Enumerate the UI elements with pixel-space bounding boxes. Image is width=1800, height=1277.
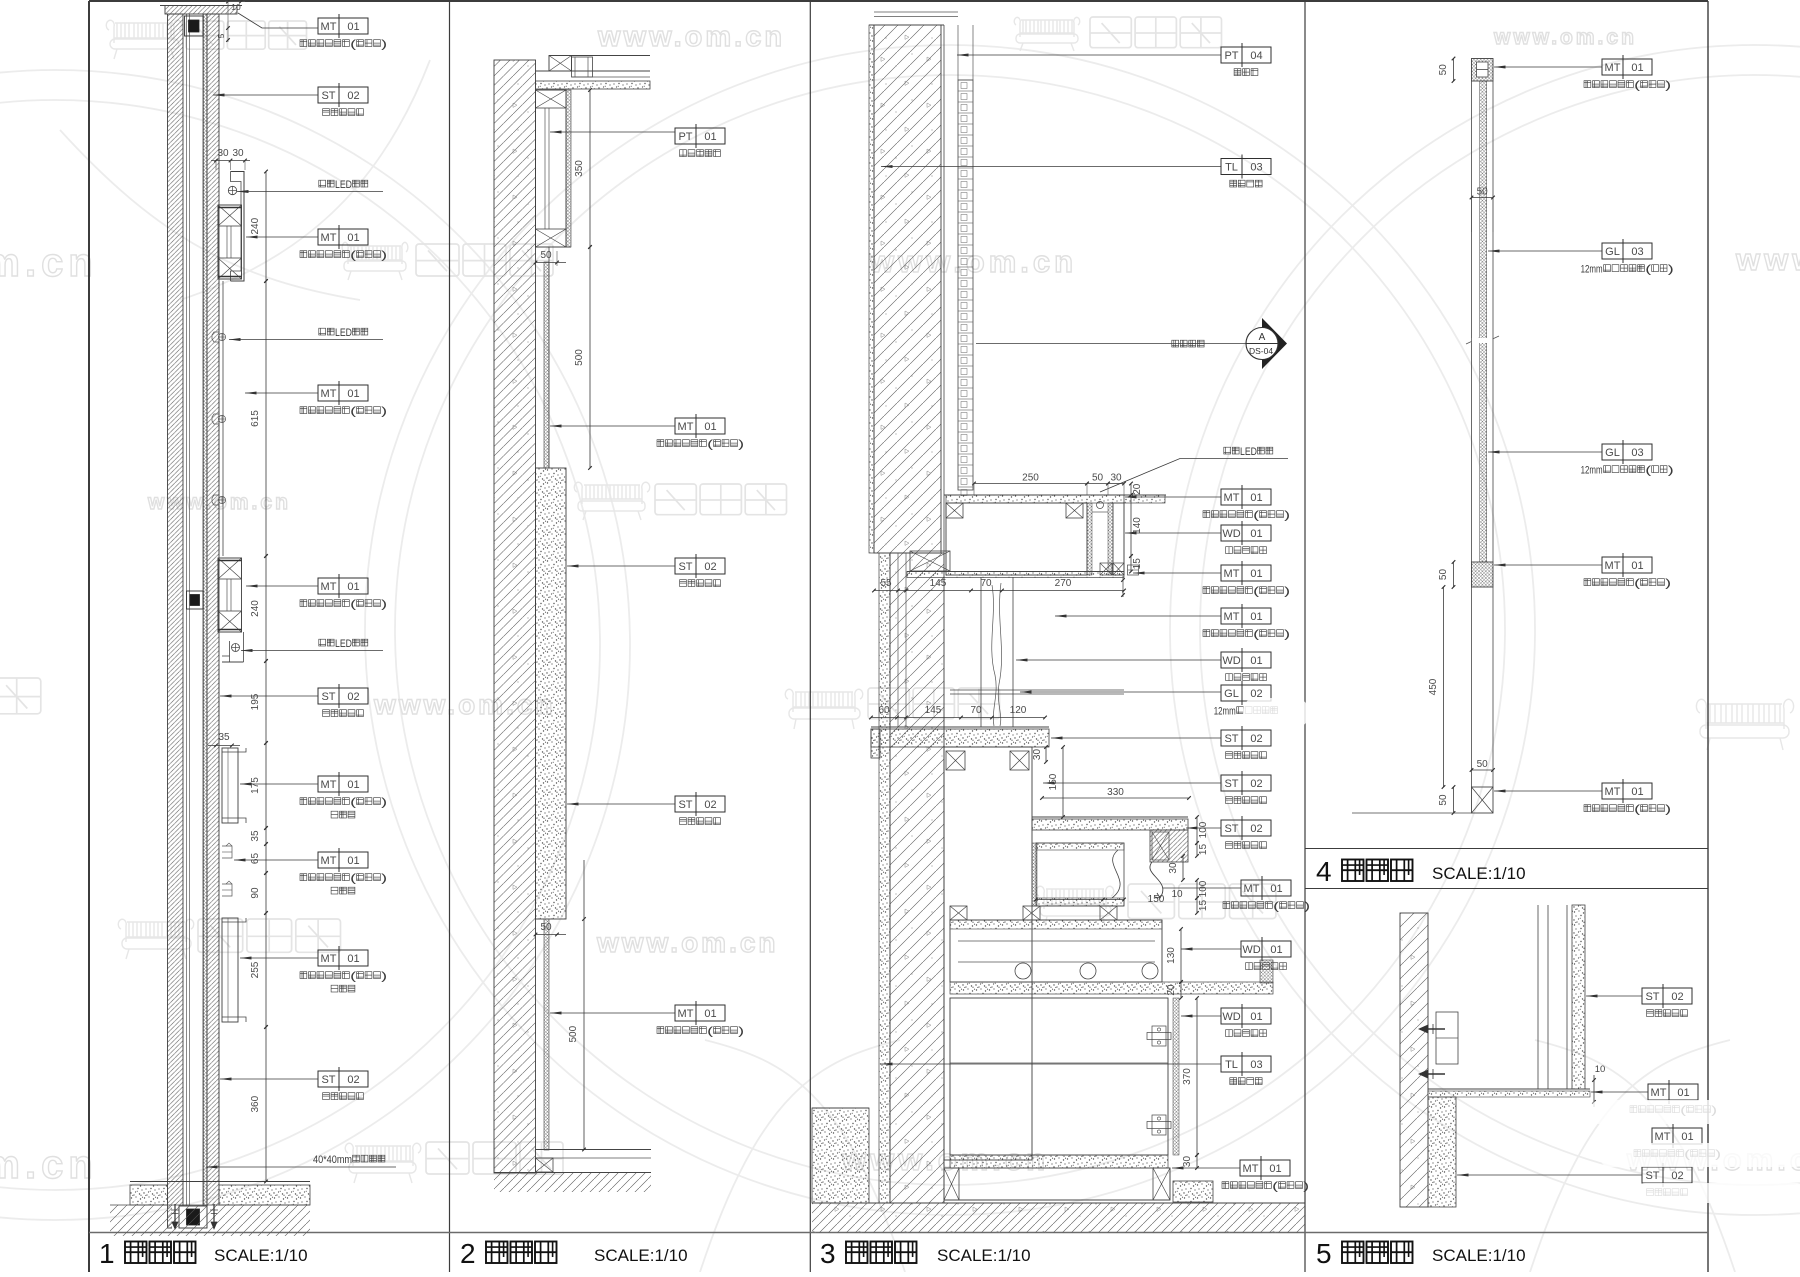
wall lower part	[879, 553, 890, 1203]
dim chain y587	[874, 590, 1124, 592]
svg-text:MT: MT	[321, 779, 337, 791]
label concealed LED strip 3	[319, 639, 326, 646]
label PT04 cement paint	[1221, 47, 1271, 63]
svg-text:ST: ST	[1224, 778, 1238, 790]
svg-text:MT: MT	[1651, 1087, 1667, 1099]
svg-text:01: 01	[1677, 1087, 1689, 1099]
label MT01 p5	[1648, 1084, 1698, 1100]
svg-text:MT: MT	[321, 953, 337, 965]
wall outer stone band (hatched)	[168, 14, 184, 1228]
svg-text:01: 01	[1631, 62, 1643, 74]
svg-text:): )	[381, 599, 387, 611]
svg-text:01: 01	[1250, 528, 1262, 540]
label GL02 tempered glass	[1221, 685, 1271, 701]
panel4 title bottom line	[1305, 888, 1708, 890]
label MT01 p3 c	[1221, 608, 1271, 624]
label MT01 metal plate 3	[318, 385, 368, 401]
svg-text:WD: WD	[1222, 528, 1240, 540]
svg-text:ST: ST	[1224, 823, 1238, 835]
svg-text:): )	[1668, 465, 1674, 477]
top small dims	[225, 1, 245, 3]
label WD01 drawers	[1241, 941, 1291, 957]
svg-text:02: 02	[347, 1074, 359, 1086]
svg-text:ST: ST	[321, 1074, 335, 1086]
svg-text:50: 50	[1438, 64, 1449, 76]
svg-text:(: (	[1645, 264, 1651, 276]
svg-text:(: (	[350, 873, 356, 885]
backlit panel assembly A3 (175)	[222, 748, 238, 823]
svg-text:150: 150	[1048, 773, 1059, 790]
glass break marks	[1466, 338, 1479, 344]
cabinet step 1	[944, 747, 1032, 1160]
svg-text:35: 35	[218, 732, 230, 743]
svg-text:70: 70	[980, 578, 992, 589]
svg-text:20: 20	[1132, 483, 1143, 495]
sheet frame	[89, 0, 1708, 2]
svg-text:15: 15	[1198, 844, 1209, 856]
concrete wall p5	[1400, 913, 1428, 1207]
svg-text:01: 01	[1250, 1011, 1262, 1023]
small brackets between	[222, 846, 232, 858]
svg-text:01: 01	[1631, 786, 1643, 798]
svg-text:50: 50	[1438, 569, 1449, 581]
svg-text:(: (	[350, 599, 356, 611]
svg-text:30: 30	[232, 148, 244, 159]
metal sheet face upper	[566, 90, 571, 247]
label WD01 door	[1221, 1008, 1271, 1024]
middle black connector	[187, 591, 204, 609]
svg-text:MT: MT	[1655, 1131, 1671, 1143]
svg-text:100: 100	[1198, 821, 1209, 838]
label MT01 panel2	[675, 418, 725, 434]
svg-text:65: 65	[250, 853, 261, 865]
svg-text:ST: ST	[678, 561, 692, 573]
svg-text:(: (	[1253, 586, 1259, 598]
svg-text:175: 175	[250, 777, 261, 794]
svg-text:(: (	[1634, 80, 1640, 92]
svg-text:02: 02	[1671, 991, 1683, 1003]
svg-text:02: 02	[1250, 733, 1262, 745]
svg-text:330: 330	[1107, 787, 1124, 798]
svg-text:MT: MT	[321, 388, 337, 400]
upper shelf unit	[946, 495, 1165, 503]
face metal panel between assemblies	[218, 281, 220, 556]
svg-text:4: 4	[1316, 856, 1332, 887]
svg-text:01: 01	[1269, 1163, 1281, 1175]
label TL03 wall tile behind	[1221, 1056, 1271, 1072]
svg-text:01: 01	[347, 21, 359, 33]
svg-text:SCALE:1/10: SCALE:1/10	[594, 1246, 688, 1265]
svg-text:250: 250	[1022, 473, 1039, 484]
dims panel 3	[974, 483, 1087, 485]
svg-text:): )	[1303, 1181, 1309, 1193]
LED niche right	[1087, 503, 1092, 575]
svg-text:DS-04: DS-04	[1249, 346, 1273, 356]
svg-text:02: 02	[347, 90, 359, 102]
hinges	[1152, 1026, 1166, 1046]
label MT01 panel2 low	[675, 1005, 725, 1021]
svg-text:01: 01	[1250, 655, 1262, 667]
label concealed LED strip 1	[319, 180, 326, 187]
svg-text:): )	[1284, 510, 1290, 522]
svg-text:02: 02	[1250, 778, 1262, 790]
label GL03 glass film	[1602, 243, 1652, 259]
svg-text:01: 01	[347, 779, 359, 791]
svg-text:120: 120	[1010, 705, 1027, 716]
left floor slab	[812, 1108, 869, 1203]
LED bracket symbols	[212, 332, 219, 342]
svg-text:MT: MT	[321, 855, 337, 867]
panel4 title top line	[1305, 848, 1708, 850]
svg-text:ST: ST	[1224, 733, 1238, 745]
svg-text:MT: MT	[321, 21, 337, 33]
svg-text:240: 240	[250, 217, 261, 234]
svg-text:01: 01	[1270, 883, 1282, 895]
ceiling finish band (dotted)	[536, 81, 651, 89]
svg-text:): )	[1668, 264, 1674, 276]
glass shelf	[950, 689, 1124, 691]
white watermark blobs	[1243, 698, 1800, 1203]
dim chain y714	[871, 717, 1045, 719]
svg-text:MT: MT	[1224, 492, 1240, 504]
svg-text:(: (	[1273, 901, 1279, 913]
svg-text:LED: LED	[335, 638, 352, 650]
label PT01 gray latex paint	[675, 128, 725, 144]
label MT01 p3 b	[1221, 565, 1271, 581]
svg-text:01: 01	[1270, 944, 1282, 956]
svg-text:): )	[1284, 629, 1290, 641]
svg-text:LED: LED	[335, 179, 352, 191]
svg-text:MT: MT	[1243, 1163, 1259, 1175]
label MT01 p3 niche2	[1241, 880, 1291, 896]
svg-text:(: (	[707, 439, 713, 451]
floor slab panel1	[130, 1181, 310, 1183]
svg-text:01: 01	[347, 581, 359, 593]
svg-text:55: 55	[880, 578, 892, 589]
svg-text:145: 145	[925, 705, 942, 716]
label TL03 kitchen tile	[1221, 159, 1271, 175]
svg-text:50: 50	[1092, 473, 1104, 484]
svg-text:01: 01	[1250, 568, 1262, 580]
svg-text:(: (	[350, 39, 356, 51]
label MT01 kick	[1240, 1160, 1290, 1176]
svg-text:): )	[1284, 586, 1290, 598]
label MT01 p4 bottom	[1602, 783, 1652, 799]
svg-text:50: 50	[1477, 187, 1489, 198]
svg-text:(: (	[350, 971, 356, 983]
label MT01 metal plate 2	[318, 229, 368, 245]
svg-text:GL: GL	[1224, 688, 1239, 700]
svg-text:12mm: 12mm	[1581, 264, 1603, 276]
svg-text:): )	[738, 439, 744, 451]
svg-text:03: 03	[1631, 246, 1643, 258]
svg-text:ST: ST	[678, 799, 692, 811]
floor lines panel 2	[536, 1149, 652, 1151]
svg-text:15: 15	[1198, 900, 1209, 912]
svg-text:130: 130	[1166, 947, 1177, 964]
label ST02 white marble 3	[318, 1071, 368, 1087]
wall metal sheet layer	[204, 14, 208, 1228]
wall furring column with X ends	[536, 90, 567, 247]
svg-text:15: 15	[1132, 558, 1143, 570]
svg-text:): )	[381, 406, 387, 418]
svg-text:30: 30	[217, 148, 229, 159]
niche with metal lining	[1036, 843, 1124, 906]
concrete wall hatched	[494, 60, 536, 1173]
svg-text:): )	[1304, 901, 1310, 913]
label MT01 p4 top	[1602, 59, 1652, 75]
label ST02 p5 column	[1642, 988, 1692, 1004]
svg-text:LED: LED	[1240, 446, 1257, 458]
divider panel2-3	[809, 1, 811, 1272]
label WD01 wood veneer	[1221, 525, 1271, 541]
svg-text:03: 03	[1250, 1059, 1262, 1071]
svg-text:PT: PT	[678, 131, 692, 143]
svg-text:): )	[1665, 804, 1671, 816]
svg-text:www.om.cn: www.om.cn	[596, 927, 779, 958]
label MT01 backlit 2	[318, 852, 368, 868]
divider panel1-2	[449, 1, 451, 1272]
backlit panel assembly A4 (255)	[222, 918, 238, 1022]
svg-text:2: 2	[460, 1238, 476, 1269]
svg-text:ST: ST	[321, 90, 335, 102]
svg-text:WD: WD	[1222, 1011, 1240, 1023]
wall top cap	[165, 6, 237, 15]
LED hook below A2	[229, 641, 231, 662]
svg-text:SCALE:1/10: SCALE:1/10	[214, 1246, 308, 1265]
svg-text:01: 01	[347, 953, 359, 965]
svg-text:MT: MT	[321, 581, 337, 593]
svg-text:01: 01	[704, 421, 716, 433]
50 width dim lower	[1472, 769, 1494, 771]
50 step dim mid	[536, 934, 567, 936]
detail ref symbol	[976, 343, 1246, 345]
svg-text:MT: MT	[1605, 62, 1621, 74]
svg-text:12mm: 12mm	[1214, 706, 1236, 718]
svg-text:01: 01	[347, 855, 359, 867]
svg-text:(: (	[1634, 578, 1640, 590]
svg-text:30: 30	[1168, 862, 1179, 874]
svg-text:TL: TL	[1225, 162, 1238, 174]
svg-text:360: 360	[250, 1095, 261, 1112]
svg-text:5: 5	[216, 33, 226, 38]
lower column	[1471, 587, 1473, 787]
svg-text:150: 150	[1148, 894, 1165, 905]
svg-text:(: (	[350, 250, 356, 262]
svg-text:): )	[381, 873, 387, 885]
svg-text:www.om.cn: www.om.cn	[597, 21, 785, 53]
svg-text:255: 255	[250, 961, 261, 978]
shelf	[1428, 1088, 1590, 1090]
svg-text:MT: MT	[1605, 786, 1621, 798]
svg-text:MT: MT	[678, 1008, 694, 1020]
ceiling soffit line p3	[874, 11, 958, 13]
svg-text:02: 02	[347, 691, 359, 703]
svg-text:615: 615	[250, 410, 261, 427]
svg-text:01: 01	[347, 232, 359, 244]
middle metal block	[1472, 562, 1494, 587]
svg-text:(: (	[350, 406, 356, 418]
svg-text:MT: MT	[1224, 568, 1240, 580]
svg-text:(: (	[1634, 804, 1640, 816]
label MT01 p3 niche	[1221, 489, 1271, 505]
svg-text:450: 450	[1428, 678, 1439, 695]
svg-text:02: 02	[1671, 1170, 1683, 1182]
svg-text:www.om.cn: www.om.cn	[1493, 26, 1637, 49]
svg-text:om.cn: om.cn	[0, 1143, 98, 1187]
label MT01 p5 b	[1652, 1128, 1702, 1144]
label ST02 p3 counter	[1221, 730, 1271, 746]
bottom black connector	[172, 1206, 220, 1232]
stone cladding band (stipple)	[536, 468, 567, 919]
svg-text:03: 03	[1250, 162, 1262, 174]
svg-text:30: 30	[1032, 749, 1043, 761]
50 width dim	[1472, 197, 1494, 199]
svg-text:TL: TL	[1225, 1059, 1238, 1071]
LED symbol top niche	[228, 186, 236, 194]
concrete wall hatched p3	[869, 25, 874, 553]
dims panel 2	[589, 90, 591, 247]
svg-text:WD: WD	[1242, 944, 1260, 956]
svg-text:1: 1	[99, 1238, 115, 1269]
glass upper run	[1471, 81, 1473, 562]
svg-text:om.cn: om.cn	[0, 241, 98, 285]
svg-text:01: 01	[347, 388, 359, 400]
50 step dim upper	[536, 262, 567, 264]
label concealed LED strip 2	[319, 328, 326, 335]
title band line	[89, 1232, 1708, 1234]
dim chain panel1	[211, 160, 250, 162]
svg-text:01: 01	[1250, 492, 1262, 504]
svg-text:A: A	[1259, 332, 1266, 343]
anchor bolts	[1428, 1028, 1445, 1030]
top metal block	[1472, 59, 1494, 82]
band below drawers	[950, 982, 1273, 994]
svg-text:PT: PT	[1224, 50, 1238, 62]
svg-text:): )	[1665, 578, 1671, 590]
svg-text:(: (	[1645, 465, 1651, 477]
svg-text:12mm: 12mm	[1581, 465, 1603, 477]
svg-text:03: 03	[1631, 447, 1643, 459]
svg-text:MT: MT	[1224, 611, 1240, 623]
svg-text:20: 20	[1166, 984, 1177, 996]
label ST02 white marble	[318, 87, 368, 103]
svg-text:): )	[381, 39, 387, 51]
metal panel bottom segment	[544, 919, 549, 1150]
svg-text:ST: ST	[1645, 1170, 1659, 1182]
svg-text:01: 01	[1250, 611, 1262, 623]
anchor bolts below floor	[174, 1204, 176, 1222]
small dims p5	[1593, 1075, 1595, 1107]
svg-text:): )	[381, 250, 387, 262]
svg-text:MT: MT	[1244, 883, 1260, 895]
svg-text:GL: GL	[1605, 246, 1620, 258]
metal panel lower segment	[544, 262, 549, 468]
svg-text:ST: ST	[1645, 991, 1659, 1003]
wall cavity lines	[186, 14, 188, 1228]
svg-text:50: 50	[1438, 794, 1449, 806]
metal panel assembly A2	[218, 558, 242, 632]
stone face bottom segment (360)	[218, 1027, 220, 1160]
wood upright	[980, 577, 982, 727]
svg-text:50: 50	[1477, 759, 1489, 770]
stone band below shelf	[1428, 1097, 1456, 1207]
furring lines below wall	[897, 553, 899, 727]
watermark logos and text	[106, 20, 181, 59]
svg-text:MT: MT	[321, 232, 337, 244]
svg-text:GL: GL	[1605, 447, 1620, 459]
svg-text:(: (	[707, 1026, 713, 1038]
step2 stone	[1032, 816, 1188, 818]
svg-text:3: 3	[820, 1238, 836, 1269]
svg-text:MT: MT	[678, 421, 694, 433]
label MT01 p4 mid	[1602, 557, 1652, 573]
svg-text:60: 60	[878, 705, 890, 716]
floor panel 3	[812, 1202, 1305, 1204]
label WD01 wood veneer 2	[1221, 652, 1271, 668]
label GL03 glass film 2	[1602, 444, 1652, 460]
svg-text:100: 100	[1198, 880, 1209, 897]
svg-text:02: 02	[704, 799, 716, 811]
svg-text:70: 70	[970, 705, 982, 716]
svg-text:50: 50	[540, 250, 552, 261]
svg-text:30: 30	[1182, 1156, 1193, 1168]
svg-text:01: 01	[704, 1008, 716, 1020]
label ST02 p3 step2	[1221, 820, 1271, 836]
svg-text:240: 240	[250, 600, 261, 617]
svg-text:01: 01	[704, 131, 716, 143]
svg-text:SCALE:1/10: SCALE:1/10	[1432, 864, 1526, 883]
bottom block	[1472, 787, 1494, 813]
svg-text:10: 10	[231, 2, 241, 12]
svg-text:www.om.cn: www.om.cn	[1735, 242, 1800, 277]
svg-text:500: 500	[574, 349, 585, 366]
svg-text:(: (	[1253, 510, 1259, 522]
svg-text:500: 500	[568, 1025, 579, 1042]
svg-text:01: 01	[1631, 560, 1643, 572]
svg-text:SCALE:1/10: SCALE:1/10	[1432, 1246, 1526, 1265]
label ST02 panel2	[675, 558, 725, 574]
cabinet door	[950, 998, 1168, 1155]
label MT01 metal plate 4	[318, 578, 368, 594]
svg-text:35: 35	[250, 830, 261, 842]
label MT01 metal plate matte paint top	[318, 18, 368, 34]
tile strip	[957, 25, 959, 80]
label ST02 panel2 low	[675, 796, 725, 812]
label ST02 p5 low	[1642, 1167, 1692, 1183]
lower counter stone top	[871, 726, 1049, 728]
drawer unit	[950, 920, 1162, 982]
svg-text:04: 04	[1250, 50, 1262, 62]
svg-text:40*40mm: 40*40mm	[313, 1154, 352, 1166]
svg-text:MT: MT	[1605, 560, 1621, 572]
svg-text:): )	[381, 797, 387, 809]
svg-text:270: 270	[1055, 578, 1072, 589]
vertical column	[1537, 905, 1539, 1089]
svg-text:350: 350	[574, 160, 585, 177]
svg-text:140: 140	[1132, 517, 1143, 534]
svg-text:(: (	[350, 797, 356, 809]
LED strip label p3	[1224, 447, 1231, 454]
divider panel3-45	[1304, 1, 1306, 1272]
svg-text:): )	[738, 1026, 744, 1038]
kick recess	[950, 1155, 1168, 1168]
svg-text:): )	[1665, 80, 1671, 92]
C-channel top niche	[231, 172, 245, 282]
svg-text:02: 02	[704, 561, 716, 573]
stone face segment (195)	[218, 665, 220, 743]
svg-text:LED: LED	[335, 327, 352, 339]
